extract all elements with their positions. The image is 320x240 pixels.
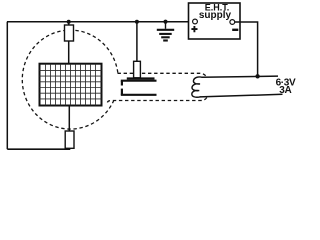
ground symbol [157, 22, 174, 41]
wire left side [6, 22, 8, 150]
gauze electrode (grid mesh) [40, 64, 102, 106]
wire gauze top lead [68, 22, 70, 65]
svg-text:3A: 3A [279, 85, 291, 96]
lead-through seal top (rectangle) [65, 25, 74, 41]
junction dot (EHT neg / heater wire) [255, 74, 259, 78]
lead-through seal bottom (rectangle) [65, 131, 74, 148]
svg-text:supply: supply [199, 10, 232, 21]
wire heater bottom lead [200, 94, 283, 97]
wire bottom [7, 148, 69, 151]
heater coil (filament) [192, 77, 203, 97]
tube envelope (glass bulb, dashed) [22, 30, 207, 129]
wire anode lead [136, 22, 138, 62]
anode plate [127, 77, 155, 79]
lead-through seal anode (rectangle) [134, 61, 141, 78]
wire top rail [7, 21, 193, 23]
junction dot (ground / top rail) [163, 20, 167, 24]
wire EHT negative to cathode [235, 22, 258, 76]
wire gauze bottom lead [68, 106, 70, 149]
junction dot (anode lead / top rail) [135, 20, 139, 24]
terminal - (open circle) [230, 20, 235, 25]
E.H.T. supply box U1 [189, 2, 241, 39]
terminal + (open circle) [193, 19, 198, 24]
anode cylinder (C bracket) [121, 81, 157, 95]
junction dot (gauze lead / top rail) [67, 20, 71, 24]
wire heater top lead [202, 76, 279, 77]
